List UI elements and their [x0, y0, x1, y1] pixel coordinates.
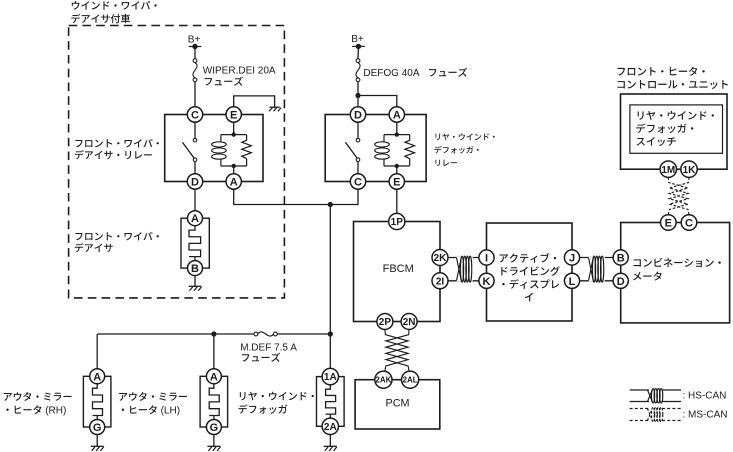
label FBCM — [383, 263, 414, 275]
label active driving display — [500, 253, 560, 301]
defogger pin 1A — [322, 368, 338, 384]
wire coil2 to E — [396, 166, 398, 174]
relay1 pin A — [226, 174, 241, 189]
rear window defogger box — [317, 377, 345, 427]
wire RH G to ground — [96, 435, 98, 447]
relay1 switch — [182, 138, 196, 161]
svg-text:D: D — [191, 176, 199, 188]
fuse M.DEF 7.5A — [254, 332, 277, 336]
meter pin C — [681, 215, 697, 231]
svg-text:I: I — [485, 252, 488, 264]
meter pin E — [661, 215, 677, 231]
node above relay2 — [355, 93, 360, 98]
label PCM — [386, 397, 410, 409]
wire L to D — [580, 280, 614, 282]
wire node to pin D — [357, 96, 359, 107]
svg-text:2P: 2P — [379, 317, 392, 328]
ground defogger — [324, 446, 337, 451]
PCM pin 2AL — [402, 371, 419, 388]
wire J to B — [580, 257, 614, 259]
display pin I — [479, 250, 494, 265]
label DEFOG 40A fuse — [363, 68, 467, 80]
fuse WIPER.DEI 20A — [193, 59, 197, 82]
wire fuse1 to pin C — [194, 82, 196, 107]
mirror LH pin A — [206, 369, 221, 384]
wire B+2 to fuse — [357, 46, 359, 58]
outer mirror heater LH box — [200, 376, 228, 427]
FBCM pin 1P — [389, 213, 405, 229]
label windo wiper deicer option — [71, 1, 156, 23]
svg-text:M.DEF 7.5 A: M.DEF 7.5 A — [240, 343, 297, 354]
mirror LH pin G — [206, 420, 221, 435]
FBCM pin 2I — [432, 273, 448, 289]
relay2 coil and resistor — [375, 132, 415, 168]
wire 2I to K — [448, 280, 479, 282]
relay2 switch wire top — [357, 122, 359, 138]
svg-text:2I: 2I — [436, 276, 445, 287]
ground mirror RH — [91, 446, 104, 451]
wire node down to defogger — [329, 205, 331, 369]
relay1 coil and resistor — [212, 132, 252, 168]
ground deicer — [189, 286, 202, 290]
relay box フロント・ワイパ・デアイサ・リレー — [165, 115, 263, 182]
label rear window defogger switch — [636, 111, 714, 146]
wire down to RH heater — [96, 334, 98, 369]
svg-text:(RH): (RH) — [45, 406, 66, 417]
svg-text:A: A — [393, 109, 401, 121]
svg-text:E: E — [665, 217, 672, 229]
FBCM pin 2N — [401, 314, 417, 330]
relay1 switch wire top — [194, 122, 196, 138]
front wiper deicer box — [181, 218, 209, 268]
bottom feed wire right — [277, 333, 330, 335]
label outer mirror heater LH — [119, 392, 187, 416]
relay1 pin E — [226, 107, 241, 122]
wire B+1 to fuse — [194, 47, 196, 59]
ground at relay1 E — [269, 107, 281, 111]
svg-text:G: G — [93, 422, 102, 434]
svg-text:D: D — [617, 276, 625, 288]
svg-text:: MS-CAN: : MS-CAN — [683, 409, 728, 420]
svg-text:1K: 1K — [683, 165, 697, 176]
svg-text:B: B — [191, 263, 199, 275]
PCM pin 2AK — [375, 371, 392, 388]
legend MS-CAN text — [683, 409, 728, 420]
display pin L — [564, 273, 579, 288]
HS-CAN twisted pair FBCM-PCM — [385, 330, 409, 372]
svg-text:2K: 2K — [434, 253, 448, 264]
svg-text:A: A — [191, 213, 199, 225]
MS-CAN twisted pair — [668, 177, 689, 214]
svg-text:G: G — [210, 422, 219, 434]
svg-text:2A: 2A — [324, 422, 337, 433]
bottom feed wire left — [97, 333, 254, 335]
relay1 pin D — [187, 174, 202, 189]
relay2 switch — [345, 138, 359, 161]
wire 2A to ground — [329, 435, 331, 447]
wire LH G to ground — [213, 435, 215, 447]
node A-C junction — [328, 202, 333, 207]
meter pin D — [613, 273, 628, 288]
label WIPER.DEI 20A fuse — [203, 65, 276, 85]
legend MS-CAN symbol — [630, 407, 681, 422]
legend HS-CAN symbol — [630, 389, 681, 403]
wire relay1 A to node — [234, 189, 331, 204]
node defogger feed — [328, 331, 333, 336]
svg-text:1M: 1M — [661, 165, 675, 176]
legend HS-CAN text — [683, 390, 727, 401]
svg-text:(LH): (LH) — [161, 406, 180, 417]
relay1 pin C — [187, 107, 202, 122]
PCM box — [355, 380, 440, 429]
mirror LH heating element — [209, 384, 219, 420]
ground mirror LH — [207, 446, 220, 451]
label outer mirror heater RH — [4, 392, 72, 416]
wire pin E to ground — [234, 96, 275, 107]
meter pin B — [613, 250, 628, 265]
combination meter box — [621, 223, 730, 323]
svg-text:A: A — [210, 371, 218, 383]
svg-text:E: E — [230, 109, 237, 121]
B+ terminal 1 — [188, 34, 202, 49]
svg-text:A: A — [230, 176, 238, 188]
label front wiper deicer — [75, 232, 159, 252]
svg-text:D: D — [354, 109, 362, 121]
svg-text:2AL: 2AL — [403, 376, 418, 385]
label rear window defogger — [238, 392, 313, 414]
wire E to coil — [233, 122, 235, 134]
fuse DEFOG 40A — [356, 59, 360, 82]
svg-text:WIPER.DEI 20A: WIPER.DEI 20A — [203, 65, 276, 76]
relay2 pin C — [350, 174, 365, 189]
HS-CAN twisted pair 2 — [588, 256, 604, 282]
svg-text:C: C — [685, 217, 693, 229]
B+ terminal 2 — [351, 34, 365, 49]
wire fuse2 to node — [357, 82, 359, 96]
node LH heater — [211, 331, 216, 336]
svg-text:2AK: 2AK — [375, 376, 391, 385]
label rear window defogger relay — [434, 133, 494, 166]
defogger heating element — [326, 385, 336, 418]
wire relay1 D to deicer A — [194, 189, 196, 211]
svg-text:2N: 2N — [403, 317, 416, 328]
svg-text:J: J — [569, 252, 575, 264]
FBCM box — [354, 222, 441, 322]
relay box リヤ・ウインド・デフォッガ・リレー — [325, 115, 426, 182]
wire relay2 C to node — [330, 189, 358, 204]
svg-text:DEFOG 40A: DEFOG 40A — [363, 68, 419, 79]
relay1 switch wire bottom — [194, 162, 196, 174]
svg-text:FBCM: FBCM — [383, 263, 414, 275]
svg-text:L: L — [569, 276, 576, 288]
active driving display box — [487, 223, 573, 321]
wire A to coil2 — [396, 122, 398, 134]
svg-text:1A: 1A — [324, 372, 337, 383]
relay2 pin E — [389, 174, 404, 189]
mirror RH heating element — [93, 384, 103, 420]
heater unit pin 1M — [660, 161, 676, 177]
wire deicer B to ground — [194, 276, 196, 287]
defogger pin 2A — [322, 418, 338, 434]
svg-text:: HS-CAN: : HS-CAN — [683, 390, 727, 401]
label M.DEF fuse — [240, 343, 297, 362]
svg-text:A: A — [93, 371, 101, 383]
label front wiper deicer relay — [75, 139, 159, 159]
relay2 pin D — [350, 107, 365, 122]
display pin K — [479, 273, 494, 288]
deicer heating element — [189, 226, 201, 261]
mirror RH pin A — [90, 369, 105, 384]
svg-text:B+: B+ — [188, 34, 201, 45]
wire node to pin A — [358, 96, 397, 107]
svg-text:B: B — [617, 252, 625, 264]
wire relay2 E to FBCM 1P — [396, 189, 398, 213]
svg-text:C: C — [191, 109, 199, 121]
dashed option box ウインド・ワイパ・デアイサ付車 — [69, 26, 285, 298]
HS-CAN twisted pair 1 — [456, 256, 472, 282]
wire 2K to I — [448, 257, 479, 259]
rear window defogger switch box — [630, 105, 723, 153]
wire coil to A — [233, 166, 235, 174]
svg-text:PCM: PCM — [386, 397, 410, 409]
svg-text:E: E — [393, 176, 400, 188]
front heater control unit box — [621, 94, 728, 169]
svg-text:B+: B+ — [351, 34, 364, 45]
FBCM pin 2P — [377, 314, 393, 330]
wire down to LH heater — [213, 334, 215, 369]
mirror RH pin G — [90, 420, 105, 435]
heater unit pin 1K — [681, 161, 697, 177]
label combination meter — [633, 258, 721, 281]
deicer pin A — [188, 211, 203, 226]
FBCM pin 2K — [432, 250, 448, 266]
svg-text:1P: 1P — [391, 217, 404, 228]
label front heater control unit — [617, 67, 727, 89]
deicer pin B — [188, 261, 203, 276]
relay2 pin A — [389, 107, 404, 122]
svg-text:C: C — [354, 176, 362, 188]
svg-text:K: K — [483, 276, 491, 288]
outer mirror heater RH box — [83, 376, 111, 427]
relay2 switch wire bottom — [357, 162, 359, 174]
display pin J — [564, 250, 579, 265]
